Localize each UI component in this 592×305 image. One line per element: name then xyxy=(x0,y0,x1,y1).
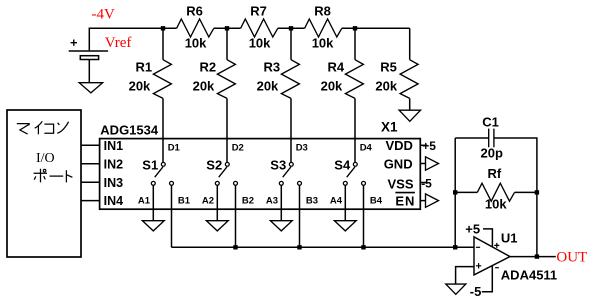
wire battery top to -4V node xyxy=(89,28,163,51)
wire A1 to ground xyxy=(152,185,154,220)
resistor R3 xyxy=(257,28,300,162)
svg-text:VDD: VDD xyxy=(386,138,413,153)
label pooto (katakana) xyxy=(34,169,73,183)
svg-text:20k: 20k xyxy=(193,79,215,94)
node between R6 R7 xyxy=(225,26,229,30)
wire noninverting input to ground xyxy=(456,267,474,284)
wire A3 to ground xyxy=(280,185,282,220)
svg-text:ADG1534: ADG1534 xyxy=(100,122,159,137)
svg-text:GND: GND xyxy=(384,156,413,171)
svg-text:20k: 20k xyxy=(257,79,279,94)
svg-text:10k: 10k xyxy=(185,36,207,51)
ground at noninverting input xyxy=(446,284,466,294)
svg-text:B1: B1 xyxy=(178,196,191,207)
svg-text:S4: S4 xyxy=(334,157,351,172)
voltage source Vref xyxy=(69,35,132,59)
capacitor C1 xyxy=(481,115,503,161)
wire bottom bus xyxy=(172,246,475,248)
wire +5 supply xyxy=(483,229,492,247)
svg-text:Vref: Vref xyxy=(105,35,132,51)
svg-text:Rf: Rf xyxy=(488,166,502,181)
svg-text:R8: R8 xyxy=(314,4,331,19)
svg-text:U1: U1 xyxy=(501,230,518,245)
switch S3 xyxy=(266,143,318,207)
wire EN pin stub xyxy=(420,200,425,202)
svg-text:+5: +5 xyxy=(422,139,436,153)
node B3 on bus xyxy=(297,245,301,249)
node B4 on bus xyxy=(361,245,365,249)
resistor Rf xyxy=(455,166,537,211)
svg-text:D1: D1 xyxy=(168,143,181,154)
svg-text:VSS: VSS xyxy=(388,176,414,191)
svg-text:10k: 10k xyxy=(312,36,334,51)
resistor R7 xyxy=(241,4,278,51)
wire GND pin stub xyxy=(420,163,425,165)
IC box ADG1534 xyxy=(100,139,421,210)
op-amp U1 xyxy=(474,230,557,282)
node bus and feedback xyxy=(453,245,457,249)
svg-text:20k: 20k xyxy=(321,79,343,94)
resistor R2 xyxy=(193,28,236,162)
svg-text:IN4: IN4 xyxy=(104,194,124,208)
ground A3 xyxy=(270,221,292,231)
svg-text:20k: 20k xyxy=(375,79,397,94)
svg-text:R6: R6 xyxy=(186,4,203,19)
svg-text:10k: 10k xyxy=(249,36,271,51)
svg-text:IN3: IN3 xyxy=(104,176,124,190)
switch S2 xyxy=(202,143,254,207)
svg-text:-5: -5 xyxy=(421,176,432,190)
svg-text:S3: S3 xyxy=(270,157,286,172)
svg-text:IN1: IN1 xyxy=(104,139,124,153)
ground below Vref xyxy=(79,83,102,93)
svg-text:A2: A2 xyxy=(202,196,214,207)
svg-text:D4: D4 xyxy=(360,143,373,154)
GND pin marker xyxy=(426,157,439,170)
svg-text:B2: B2 xyxy=(242,196,254,207)
svg-text:I/O: I/O xyxy=(36,151,55,166)
switch S1 xyxy=(138,143,191,207)
resistor R1 xyxy=(129,28,172,162)
svg-text:10k: 10k xyxy=(485,196,507,211)
node at -4V junction xyxy=(161,26,165,30)
wire -5 supply xyxy=(482,266,493,292)
label maikon (katakana) xyxy=(17,121,69,134)
node output feedback xyxy=(535,254,539,258)
ground A4 xyxy=(334,221,356,231)
node Rf right xyxy=(535,190,539,194)
wire between R7 and R8 xyxy=(278,27,305,29)
svg-text:R4: R4 xyxy=(328,60,345,75)
svg-text:R5: R5 xyxy=(380,60,397,75)
svg-text:B4: B4 xyxy=(370,196,383,207)
ground A1 xyxy=(142,221,164,231)
resistor R8 xyxy=(305,4,342,51)
wire A2 to ground xyxy=(216,185,218,220)
wires IN1-IN4 stubs xyxy=(81,145,100,200)
svg-text:R3: R3 xyxy=(264,60,281,75)
wire R8 to R5 corner xyxy=(342,27,410,29)
svg-text:20k: 20k xyxy=(129,79,151,94)
wire battery bottom to ground xyxy=(88,60,90,83)
svg-text:OUT: OUT xyxy=(556,249,587,265)
wire B2 down xyxy=(235,185,237,247)
svg-text:20p: 20p xyxy=(481,146,503,161)
wire C1 top right xyxy=(494,138,537,257)
node Rf left xyxy=(453,190,457,194)
svg-text:D3: D3 xyxy=(296,143,308,154)
wire top bus R6 leads xyxy=(163,27,241,29)
resistor R5 xyxy=(375,28,418,110)
resistor R4 xyxy=(321,28,364,162)
svg-text:IN2: IN2 xyxy=(104,157,124,171)
wire VDD stub xyxy=(420,144,427,146)
svg-text:EN: EN xyxy=(395,193,415,208)
svg-text:X1: X1 xyxy=(381,120,398,135)
wire output xyxy=(510,256,556,258)
microcontroller box xyxy=(7,110,81,257)
svg-text:-4V: -4V xyxy=(92,7,115,23)
EN pin marker xyxy=(426,194,439,207)
svg-text:-5: -5 xyxy=(470,284,482,299)
svg-text:A1: A1 xyxy=(138,196,151,207)
wire VSS stub xyxy=(420,182,427,184)
node above R4 xyxy=(353,26,357,30)
svg-text:R2: R2 xyxy=(200,60,217,75)
wire C1 top left xyxy=(455,137,489,139)
node between R7 R8 xyxy=(289,26,293,30)
wire B1 down xyxy=(171,185,173,247)
node B2 on bus xyxy=(233,245,237,249)
svg-text:D2: D2 xyxy=(232,143,244,154)
wire B4 down xyxy=(363,185,365,247)
svg-text:R1: R1 xyxy=(136,60,153,75)
resistor R6 xyxy=(177,4,214,51)
svg-text:S1: S1 xyxy=(142,157,158,172)
svg-text:A3: A3 xyxy=(266,196,278,207)
ground below R5 xyxy=(399,110,420,121)
svg-text:A4: A4 xyxy=(330,196,343,207)
ground A2 xyxy=(206,221,228,231)
svg-text:B3: B3 xyxy=(306,196,318,207)
svg-text:C1: C1 xyxy=(482,115,499,130)
svg-text:ADA4511: ADA4511 xyxy=(501,267,557,282)
wire A4 to ground xyxy=(344,185,346,220)
wire B3 down xyxy=(299,185,301,247)
svg-text:+5: +5 xyxy=(465,222,480,237)
switch S4 xyxy=(330,143,383,207)
wire feedback left vertical xyxy=(454,138,456,247)
svg-text:S2: S2 xyxy=(206,157,222,172)
svg-text:R7: R7 xyxy=(250,4,267,19)
